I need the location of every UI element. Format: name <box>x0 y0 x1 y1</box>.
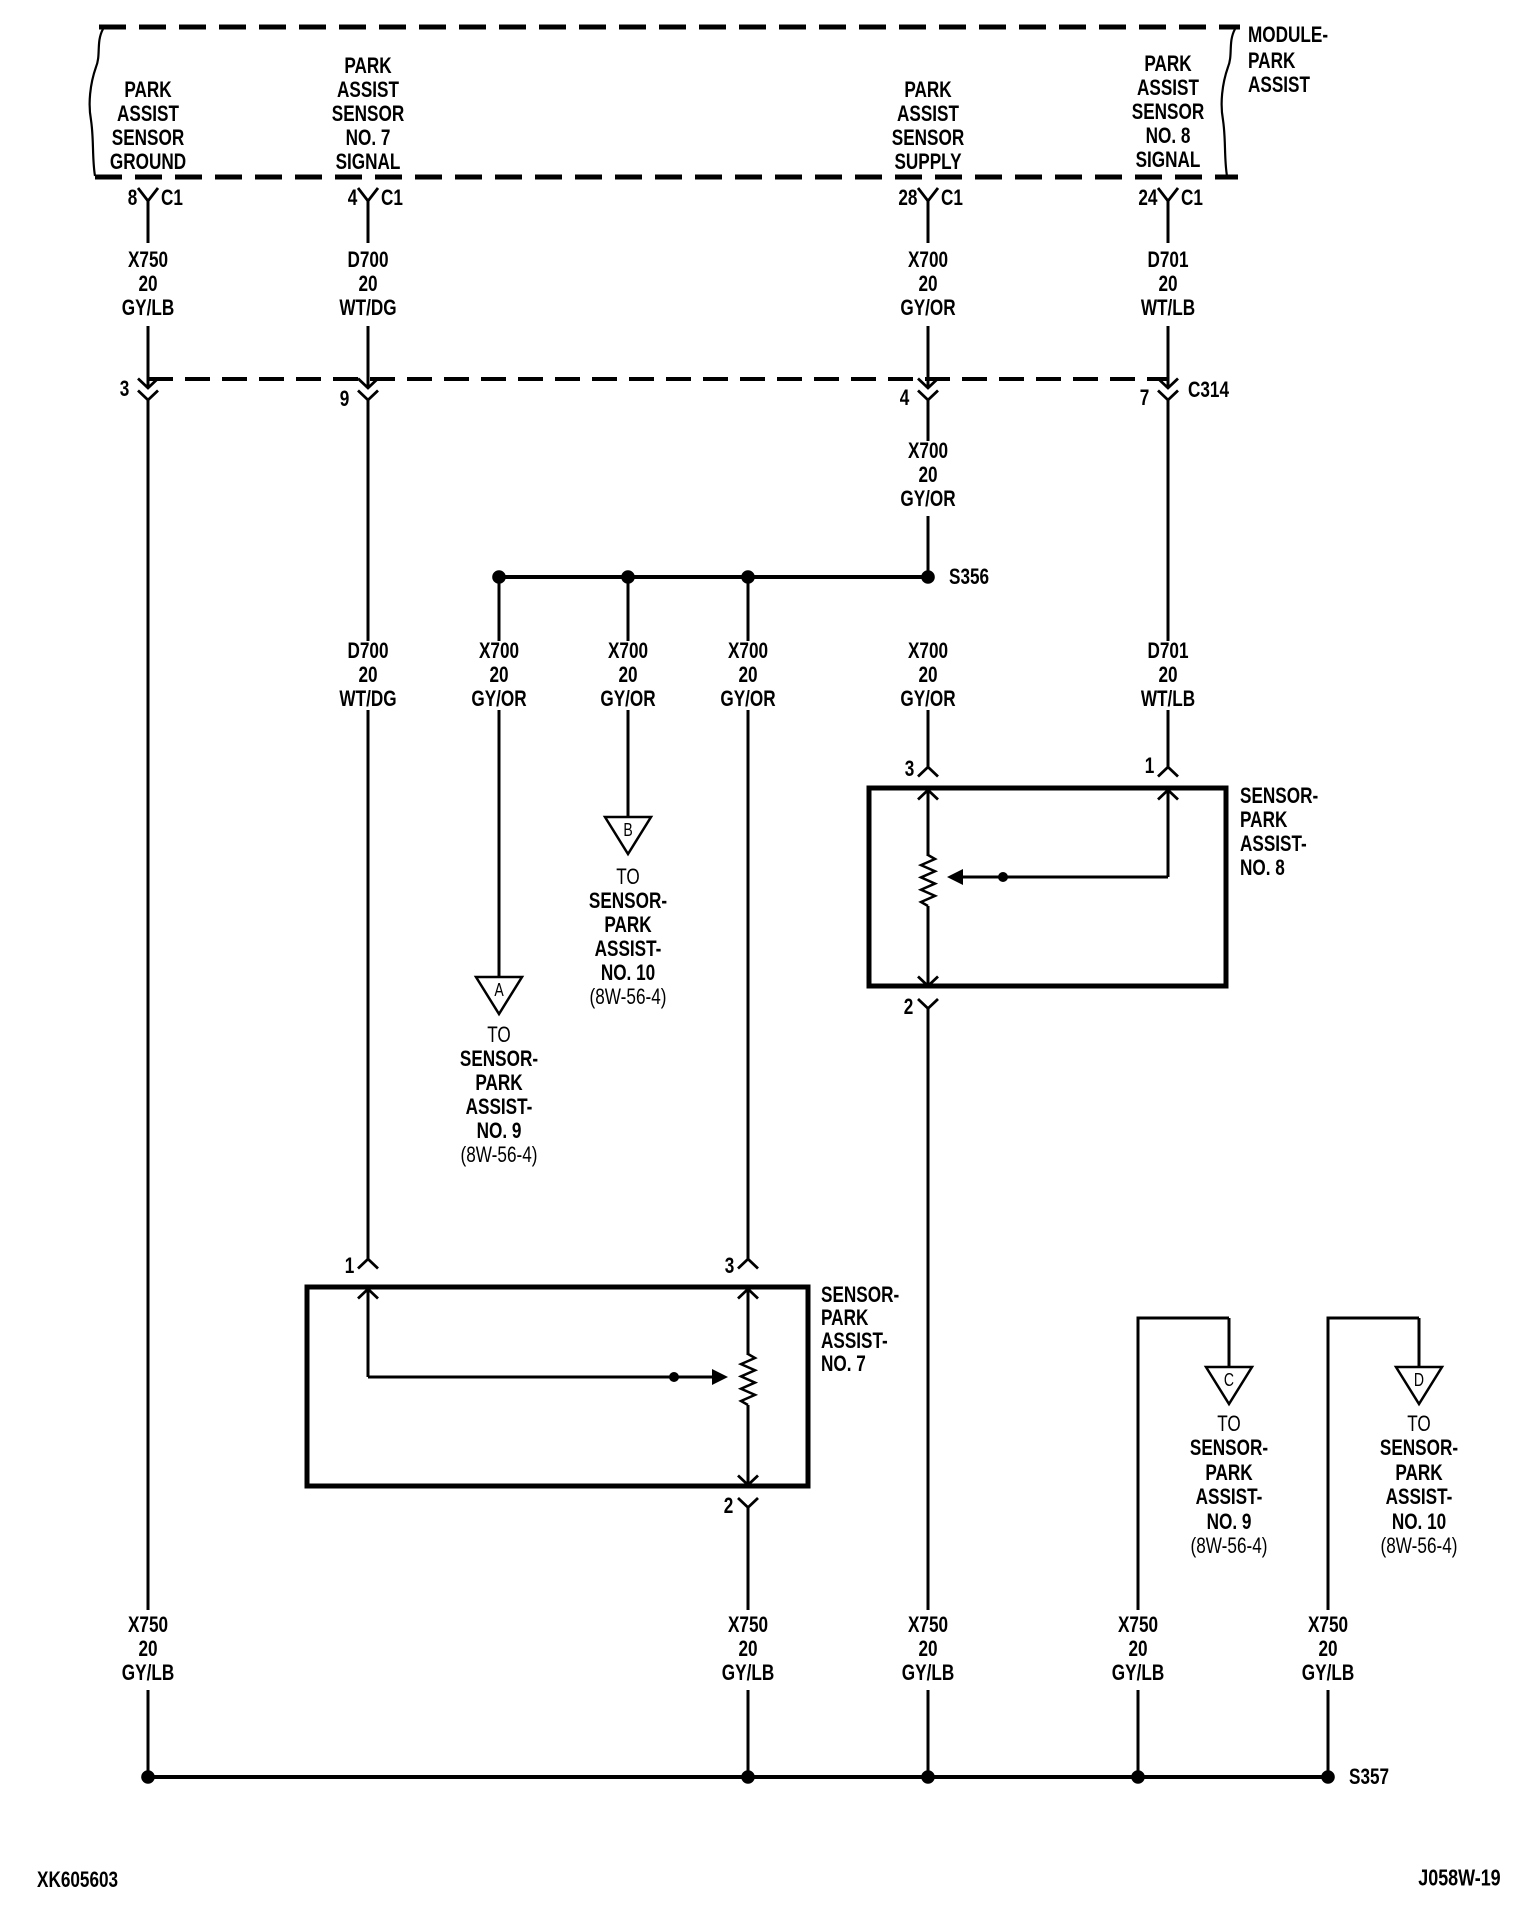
pin number 2 (sensor no.8) <box>903 996 913 1018</box>
wire segment from S356 down <box>747 577 750 641</box>
pin number 3 (sensor no.7) <box>724 1255 734 1277</box>
pin number 3 (sensor no.8) <box>904 758 914 780</box>
wire label X750 20 GY/LB (pin 8 circuit) <box>128 249 168 271</box>
wire segment down to splice S357 <box>747 1690 750 1777</box>
off-page connector D (triangle) <box>1396 1367 1442 1404</box>
component box: SENSOR-PARK ASSIST-NO. 7 <box>307 1287 808 1486</box>
component box: SENSOR-PARK ASSIST-NO. 8 <box>869 788 1226 986</box>
pin number 9 at C314 <box>339 388 349 410</box>
wire label X750 20 GY/LB (ground) <box>128 1614 168 1636</box>
sheet code XK605603 <box>37 1869 118 1891</box>
connector label C1 <box>941 187 963 209</box>
destination text below A <box>487 1024 511 1046</box>
splice junction dot at S356 <box>741 570 755 584</box>
sensor no.7 pin 3 connector chevrons <box>738 1259 758 1269</box>
splice junction dot at S357 <box>921 1770 935 1784</box>
wire label X700 20 GY/OR (pin 28 circuit) <box>908 249 948 271</box>
module pin label: PARK ASSIST SENSOR NO. 7 SIGNAL <box>344 55 391 77</box>
wire label D701 20 WT/LB <box>1147 640 1188 662</box>
connector C1 pin 24 (half-connector symbol) <box>1158 188 1178 201</box>
connector label C1 <box>381 187 403 209</box>
wire inside box from pin 1 down to wiper line <box>1167 790 1170 877</box>
wire label D700 20 WT/DG <box>347 640 388 662</box>
wire label X750 20 GY/LB (to D) <box>1308 1614 1348 1636</box>
off-page connector A (triangle) <box>476 977 522 1014</box>
wire label D700 20 WT/DG (pin 4 circuit) <box>347 249 388 271</box>
splice junction dot at S357 <box>141 1770 155 1784</box>
sheet code J058W-19 <box>1419 1867 1501 1890</box>
wire segment down to splice S357 <box>1137 1690 1140 1777</box>
letter B inside off-page connector triangle <box>623 821 632 839</box>
wire from resistor to pin 2 <box>927 906 930 984</box>
wire D701 from C314 pin 7 down to label <box>1167 400 1170 641</box>
wire from sensor no.7 pin 2 down <box>747 1507 750 1610</box>
splice junction dot at S357 <box>1321 1770 1335 1784</box>
destination text below B <box>616 866 640 888</box>
wire segment down to splice S357 <box>1327 1690 1330 1777</box>
module pin label: PARK ASSIST SENSOR SUPPLY <box>904 79 951 101</box>
connector C314 pin 7 (double chevron) <box>1158 379 1178 389</box>
wire inside box from pin 1 down and right (wiper feed) <box>367 1289 370 1377</box>
module pin label: PARK ASSIST SENSOR NO. 8 SIGNAL <box>1144 53 1191 75</box>
sensor no.8 pin 2 connector chevrons <box>918 977 938 987</box>
component label SENSOR-PARK ASSIST-NO. 8 <box>1240 785 1318 807</box>
wire D701 from label down to sensor no.8 pin 1 <box>1167 710 1170 767</box>
module - park assist (dashed boundary box, torn edges) <box>99 25 1240 30</box>
wire inside box from pin 3 to resistor <box>927 790 930 856</box>
pin number 3 at C314 <box>119 378 129 400</box>
splice junction dot at S357 <box>741 1770 755 1784</box>
splice junction dot at S356 <box>621 570 635 584</box>
splice label S357 <box>1349 1766 1389 1788</box>
wire segment down to connector C314 <box>367 326 370 387</box>
wiper arrow pointing right at resistor (sensor no.7) <box>712 1369 728 1385</box>
connector C1 pin 4 (half-connector symbol) <box>358 188 378 201</box>
sensor no.8 pin 1 connector chevrons <box>1158 767 1178 777</box>
sensor no.7 pin 1 connector chevrons <box>358 1259 378 1269</box>
wire X750 ground from C314 pin 3 down <box>147 400 150 1610</box>
off-page connector B (triangle) <box>605 817 651 854</box>
wire segment down to splice S357 <box>927 1690 930 1777</box>
destination text below C <box>1217 1413 1241 1435</box>
connector C314 pin 4 (double chevron) <box>918 379 938 389</box>
pin number 4 at C1 <box>347 187 357 209</box>
module name label: MODULE-PARK ASSIST <box>1248 24 1328 46</box>
letter A inside off-page connector triangle <box>494 981 503 999</box>
resistor element inside sensor no.8 <box>921 855 935 906</box>
connector C314 pin 9 (double chevron) <box>358 379 378 389</box>
wire segment down to connector C314 <box>927 326 930 387</box>
wire hook up-right to off-page connector C <box>1137 1318 1140 1610</box>
wire segment from S356 down <box>498 577 501 641</box>
wire segment from S356 down <box>627 577 630 641</box>
in-line connector C314 (dashed line) <box>148 377 1168 381</box>
wire label X700 20 GY/OR (to sensor no.9) <box>479 640 519 662</box>
component label SENSOR-PARK ASSIST-NO. 7 <box>821 1284 899 1306</box>
wire X700 from label down to off-page connector A <box>498 710 501 977</box>
connector label C1 <box>1181 187 1203 209</box>
wire segment down to connector C314 <box>1167 326 1170 387</box>
wire X700 from label to splice S356 <box>927 516 930 577</box>
pin number 24 at C1 <box>1138 187 1157 209</box>
wire X700 from C314 pin 4 to label <box>927 400 930 441</box>
off-page connector C (triangle) <box>1206 1367 1252 1404</box>
pin number 2 (sensor no.7) <box>723 1495 733 1517</box>
pin number 8 at C1 <box>127 187 137 209</box>
destination text below D <box>1407 1413 1431 1435</box>
splice label S356 <box>949 566 989 588</box>
wire label X700 20 GY/OR (to sensor no.8) <box>908 640 948 662</box>
sensor no.8 pin 3 connector chevrons <box>918 767 938 777</box>
connector C314 pin 3 (double chevron) <box>138 379 158 389</box>
splice junction dot at S356 <box>492 570 506 584</box>
connector C1 pin 28 (half-connector symbol) <box>918 188 938 201</box>
module pin label: PARK ASSIST SENSOR GROUND <box>124 79 171 101</box>
wire segment down to connector C314 <box>147 326 150 387</box>
wire label X750 20 GY/LB (sensor no.8 pin 2) <box>908 1614 948 1636</box>
resistor element inside sensor no.7 <box>741 1354 755 1405</box>
wire label D701 20 WT/LB (pin 24 circuit) <box>1147 249 1188 271</box>
splice junction dot at S357 <box>1131 1770 1145 1784</box>
wire D700 from label down to sensor no.7 pin 1 <box>367 710 370 1259</box>
splice S356 bus bar <box>499 575 928 579</box>
letter C inside off-page connector triangle <box>1224 1371 1234 1389</box>
pin number 28 at C1 <box>898 187 917 209</box>
junction dot on wiper line <box>998 872 1008 882</box>
pin number 7 at C314 <box>1139 387 1149 409</box>
connector label C314 <box>1188 379 1229 401</box>
splice junction dot at S356 <box>921 570 935 584</box>
wire hook up-right to off-page connector D <box>1327 1318 1330 1610</box>
pin number 1 (sensor no.8) <box>1144 755 1154 777</box>
wire label X700 20 GY/OR (to sensor no.7) <box>728 640 768 662</box>
wire X700 from label down to sensor no.7 pin 3 <box>747 710 750 1259</box>
sensor no.7 pin 2 connector chevrons <box>738 1476 758 1486</box>
wire D700 from C314 pin 9 down to label <box>367 400 370 641</box>
wire segment down to splice S357 <box>147 1690 150 1777</box>
pin number 1 (sensor no.7) <box>344 1255 354 1277</box>
wire label X700 20 GY/OR (to sensor no.10) <box>608 640 648 662</box>
connector C1 pin 8 (half-connector symbol) <box>138 188 158 201</box>
wire inside box from pin 3 to resistor <box>747 1289 750 1355</box>
wire X700 from label down to off-page connector B <box>627 710 630 817</box>
wire label X750 20 GY/LB (sensor no.7 pin 2) <box>728 1614 768 1636</box>
wire from resistor to pin 2 (sensor no.7) <box>747 1405 750 1483</box>
letter D inside off-page connector triangle <box>1414 1371 1424 1389</box>
splice S357 bus bar <box>148 1775 1328 1779</box>
pin number 4 at C314 <box>899 387 909 409</box>
junction dot on wiper line (sensor no.7) <box>669 1372 679 1382</box>
wire label X750 20 GY/LB (to C) <box>1118 1614 1158 1636</box>
wire from sensor no.8 pin 2 down <box>927 1008 930 1610</box>
wire label X700 20 GY/OR (below C314) <box>908 440 948 462</box>
wiper arrow pointing left at resistor (sensor no.8) <box>962 876 1168 879</box>
connector label C1 <box>161 187 183 209</box>
wire X700 from label down to sensor no.8 pin 3 <box>927 710 930 767</box>
